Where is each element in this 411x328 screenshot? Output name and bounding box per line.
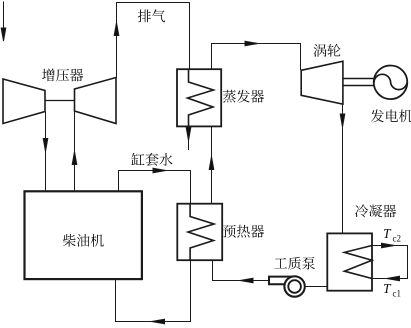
wire: charge air from compressor down to diesel engine <box>45 112 47 192</box>
label: turbine 涡轮 <box>314 44 341 57</box>
label: exhaust gas 排气 <box>138 9 165 22</box>
evaporator coil zigzag <box>188 69 214 126</box>
shaft turbine-generator (double line) <box>343 79 374 86</box>
turbocharger shaft <box>45 100 75 102</box>
turbocharger T1 turbine (right trapezoid) <box>75 78 117 124</box>
pump P1 outlet duct <box>269 277 296 285</box>
label: jacket water 缸套水 <box>132 153 173 166</box>
wire: turbine exhaust down to condenser <box>342 104 344 233</box>
wire: condensate line condenser to pump <box>305 286 328 288</box>
wire: vapor line evaporator to turbine <box>212 44 301 71</box>
wire: cooling water loop right of condenser <box>372 246 408 279</box>
heat exchanger: preheater body <box>177 204 222 261</box>
wire: pump discharge to preheater <box>213 260 270 280</box>
svg-text:c1: c1 <box>393 289 402 299</box>
label: generator 发电机 <box>371 109 411 122</box>
generator G1 circle with sine wave <box>374 66 408 100</box>
wire: turbine exhaust out, over the top to evaporator <box>117 3 190 78</box>
preheater coil zigzag <box>188 204 214 261</box>
svg-text:c2: c2 <box>393 234 402 244</box>
label: preheater 预热器 <box>223 225 264 238</box>
label: condenser 冷凝器 <box>355 204 396 217</box>
label: working fluid pump 工质泵 <box>274 257 315 270</box>
label: diesel engine 柴油机 <box>63 234 104 247</box>
heat exchanger: condenser body <box>327 233 372 290</box>
heat exchanger: evaporator body <box>177 69 221 126</box>
wire: exhaust discharge below evaporator <box>188 126 190 150</box>
turbine W1 (trapezoid) <box>301 61 343 104</box>
condenser coil zigzag <box>344 246 372 279</box>
label: turbocharger 增压器 <box>42 69 83 82</box>
wire: jacket water return preheater to engine <box>116 260 191 321</box>
turbocharger T1 compressor (left trapezoid) <box>3 79 45 124</box>
wire: working fluid preheater to evaporator riser <box>211 126 213 203</box>
label: evaporator 蒸发器 <box>223 90 264 103</box>
diesel engine E1 body <box>25 191 142 279</box>
wire: jacket water engine to preheater <box>119 171 191 204</box>
wire: engine exhaust up to turbocharger turbine <box>74 111 76 191</box>
wire: ambient air intake into turbocharger compressor <box>3 2 5 30</box>
pump P1 circles <box>284 276 304 296</box>
